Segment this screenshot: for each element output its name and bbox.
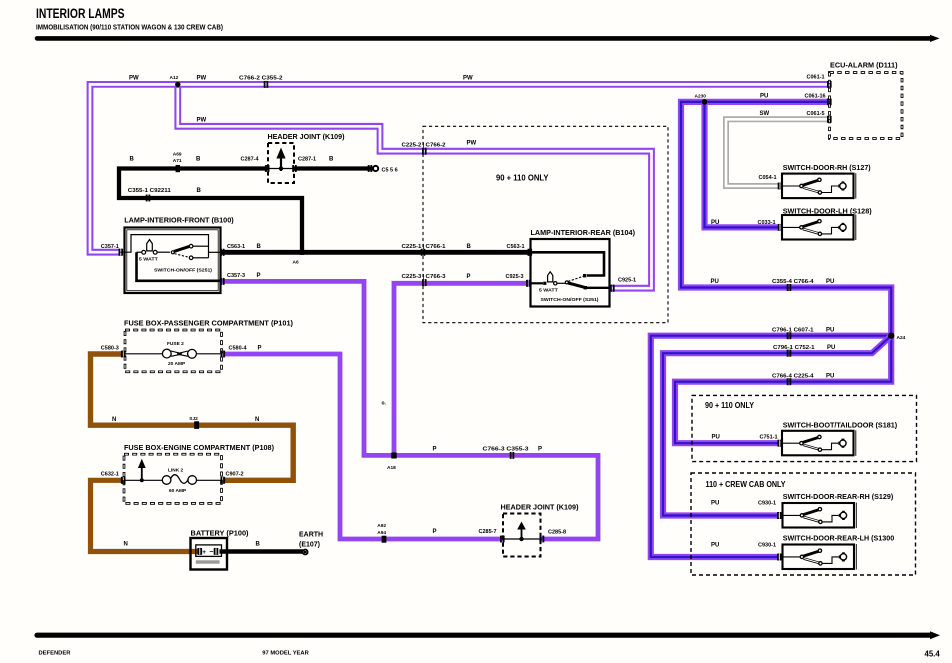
svg-text:PU: PU (712, 434, 720, 440)
svg-text:SWITCH-DOOR-LH (S128): SWITCH-DOOR-LH (S128) (783, 206, 872, 215)
connector C225-2 C766-2 (423, 148, 426, 155)
header joint K109 internal thin wire (top) (266, 166, 296, 172)
ECU-ALARM D111 dashed box (830, 73, 903, 139)
svg-text:FUSE 2: FUSE 2 (167, 341, 184, 347)
svg-text:(E107): (E107) (299, 541, 320, 548)
connector C796-1 C607-1 (788, 332, 791, 339)
svg-text:45.4: 45.4 (925, 649, 941, 658)
svg-text:A69: A69 (173, 152, 182, 158)
svg-text:A18: A18 (387, 465, 396, 471)
switch-door-RH S127 (782, 173, 856, 199)
svg-text:20 AMP: 20 AMP (168, 361, 186, 367)
connector C357-1 (119, 249, 122, 256)
svg-text:P: P (258, 345, 262, 351)
svg-text:C751-1: C751-1 (760, 434, 778, 440)
node A230 (702, 99, 708, 105)
connector C357-3 (221, 278, 224, 285)
connector C287-4 (266, 165, 269, 172)
wire P loop: fuse C580-4 down via K109 up to lamp-front C357-3 (222, 281, 599, 539)
svg-text:5 WATT: 5 WATT (139, 257, 158, 263)
svg-text:FUSE BOX-ENGINE COMPARTMENT (P: FUSE BOX-ENGINE COMPARTMENT (P108) (124, 443, 274, 452)
wire PU: A24 left along C796-1 C607-1 down to switch-door-rear-LH C930-1 (651, 336, 891, 557)
connector C930-1 RH (778, 512, 781, 519)
svg-text:P: P (433, 447, 437, 453)
wire B: front lamp C563-1 to rear lamp C563-1 (222, 250, 531, 255)
battery terminal block (196, 545, 222, 557)
svg-text:SWITCH-ON/OFF (S251): SWITCH-ON/OFF (S251) (541, 297, 599, 303)
connector C563-1 rear (528, 249, 531, 256)
svg-text:C054-1: C054-1 (759, 175, 777, 181)
svg-text:A71: A71 (173, 158, 182, 164)
svg-text:o.: o. (382, 401, 387, 407)
earth E107 stud (303, 549, 308, 554)
wire PU branch: A230 down to switch-door-LH C033-1 (705, 102, 780, 227)
connector C796-1 C752-1 (788, 350, 791, 357)
svg-text:C580-4: C580-4 (229, 345, 248, 351)
connector C061-16 (828, 99, 831, 106)
connector C285-8 (541, 536, 544, 543)
svg-text:C580-3: C580-3 (101, 345, 119, 351)
switch-door-rear-RH S129 (783, 503, 857, 529)
svg-text:PU: PU (826, 373, 834, 379)
footer rule with arrow (37, 631, 940, 639)
svg-text:N: N (124, 542, 128, 548)
wire PU: A24 diagonal, left along C796-1 C752-1, down to switch-door-rear-RH C930-1 (663, 336, 891, 516)
node A12 (175, 82, 180, 87)
svg-text:A230: A230 (695, 94, 707, 100)
terminal C5 5 6 ring (373, 166, 378, 171)
svg-text:C061-1: C061-1 (807, 75, 825, 81)
svg-text:C287-4: C287-4 (241, 157, 260, 163)
110+CREW CAB ONLY dashed region (691, 473, 916, 575)
header rule with arrow (37, 35, 940, 42)
svg-text:A92: A92 (377, 523, 386, 529)
svg-text:C563-1: C563-1 (507, 244, 525, 250)
switch-boot/taildoor S181 (782, 430, 856, 456)
svg-text:C357-1: C357-1 (101, 244, 119, 250)
svg-text:P: P (467, 274, 471, 280)
B100 switch S251 (171, 244, 193, 259)
wire PW branch: A12 to C225-2 C766-2 to rear lamp C925-1 (178, 86, 652, 288)
svg-text:B: B (130, 157, 135, 163)
connector C766-4 C225-4 (788, 378, 791, 385)
connector C225-3 C766-3 (423, 279, 426, 286)
svg-text:PW: PW (197, 76, 207, 82)
connector C033-1 (779, 224, 782, 231)
fuse 2 symbol (124, 349, 222, 358)
svg-text:SJ2: SJ2 (189, 416, 198, 422)
B100 internal wiring (121, 235, 222, 281)
connector C355-4 C766-4 (788, 284, 791, 291)
svg-text:C930-1: C930-1 (758, 542, 776, 548)
svg-text:P: P (257, 273, 261, 279)
svg-text:B: B (257, 244, 262, 250)
svg-text:PW: PW (467, 141, 477, 147)
header joint K109 dashed box (bottom) (503, 514, 541, 557)
svg-text:IMMOBILISATION (90/110 STATION: IMMOBILISATION (90/110 STATION WAGON & 1… (36, 25, 223, 32)
svg-text:C061-16: C061-16 (805, 93, 826, 99)
svg-text:C285-8: C285-8 (548, 530, 566, 536)
svg-text:PW: PW (197, 117, 207, 123)
header joint K109 dashed box (top) (268, 143, 294, 183)
svg-text:LINK 2: LINK 2 (168, 467, 184, 473)
svg-text:SW: SW (760, 111, 770, 117)
svg-text:INTERIOR LAMPS: INTERIOR LAMPS (36, 6, 125, 21)
connector battery minus terminal (215, 548, 218, 555)
svg-text:B: B (256, 542, 261, 548)
battery gray bar (196, 560, 220, 563)
svg-text:HEADER JOINT (K109): HEADER JOINT (K109) (501, 504, 579, 511)
svg-text:SWITCH-DOOR-RH (S127): SWITCH-DOOR-RH (S127) (783, 163, 871, 172)
svg-text:PU: PU (760, 93, 768, 99)
svg-text:C563-1: C563-1 (227, 244, 245, 250)
connector C285-7 (501, 536, 504, 543)
connector C766-3 C355-3 (511, 452, 514, 459)
svg-text:PU: PU (711, 279, 719, 285)
svg-text:−: − (209, 549, 213, 556)
svg-text:C925-1: C925-1 (618, 278, 636, 284)
connector C766-2 C355-2 (265, 81, 268, 88)
svg-text:C930-1: C930-1 (758, 500, 776, 506)
connector C355-1 C92211 (147, 195, 150, 202)
svg-text:PU: PU (711, 500, 719, 506)
connector C925-1 (611, 285, 614, 292)
wire P branch: rear lamp C925-3 left and down to A18 (394, 283, 529, 455)
svg-text:C766-3 C355-3: C766-3 C355-3 (483, 447, 529, 453)
node A24 (888, 333, 894, 339)
svg-text:PU: PU (826, 327, 834, 333)
B104 bulb 5 WATT (543, 272, 557, 285)
header joint K109 arrow (top) (276, 148, 285, 172)
wire B: battery to earth E107 (220, 549, 304, 554)
svg-text:C225-2 | C766-2: C225-2 | C766-2 (402, 142, 446, 148)
svg-text:B: B (197, 188, 202, 194)
connector C287-1 (293, 165, 296, 172)
svg-text:C766-2 C355-2: C766-2 C355-2 (239, 76, 283, 82)
fuse box-passenger compartment P101 dashed box (125, 330, 222, 372)
wire PW main: ECU C061-1 to A12 to lamp-front C357-1 (90, 84, 830, 252)
svg-text:110 + CREW CAB ONLY: 110 + CREW CAB ONLY (706, 480, 787, 489)
svg-text:C925-3: C925-3 (506, 274, 524, 280)
90+110 ONLY dashed region (top) (423, 126, 668, 322)
B100 bulb 5 WATT (142, 240, 157, 255)
B104 switch S251 (565, 274, 587, 289)
svg-text:ECU-ALARM (D111): ECU-ALARM (D111) (830, 60, 898, 69)
90+110 ONLY dashed region (bottom, boot switch) (692, 395, 917, 461)
svg-text:LAMP-INTERIOR-FRONT (B100): LAMP-INTERIOR-FRONT (B100) (124, 216, 234, 225)
svg-text:B: B (196, 157, 201, 163)
lamp-interior-rear B104 box (531, 239, 610, 307)
svg-text:C225-1 | C766-1: C225-1 | C766-1 (402, 244, 446, 250)
svg-text:PU: PU (826, 279, 834, 285)
svg-text:SWITCH-DOOR-REAR-LH (S1300: SWITCH-DOOR-REAR-LH (S1300 (783, 533, 895, 542)
svg-text:N: N (255, 417, 259, 423)
svg-text:90 + 110 ONLY: 90 + 110 ONLY (496, 172, 549, 182)
wire N: C632-1 down and right to battery (91, 480, 200, 551)
P108 internal arrow (138, 459, 146, 483)
switch-door-LH S128 (782, 215, 856, 241)
node SJ2 (194, 421, 199, 429)
svg-text:LAMP-INTERIOR-REAR (B104): LAMP-INTERIOR-REAR (B104) (531, 228, 636, 237)
svg-text:C796-1 C607-1: C796-1 C607-1 (772, 327, 814, 333)
svg-text:P: P (538, 447, 542, 453)
connector C925-3 (527, 280, 530, 287)
connector C061-5 (828, 116, 831, 123)
svg-text:PW: PW (129, 76, 139, 82)
svg-text:C355-4 C766-4: C355-4 C766-4 (772, 279, 815, 285)
svg-text:A24: A24 (897, 335, 906, 341)
svg-text:5 WATT: 5 WATT (539, 287, 558, 293)
connector C930-1 LH (778, 554, 781, 561)
svg-text:SWITCH-BOOT/TAILDOOR (S181): SWITCH-BOOT/TAILDOOR (S181) (783, 420, 898, 429)
svg-text:C907-2: C907-2 (226, 472, 244, 478)
svg-text:A12: A12 (170, 75, 179, 81)
svg-text:C357-3: C357-3 (227, 273, 245, 279)
connector C907-2 (221, 477, 224, 484)
wire PU main: ECU C061-16 left, down, across, down to A24, down, left, down to C751-1 (675, 102, 891, 443)
switch-door-rear-LH S1300 (783, 544, 857, 570)
svg-text:PU: PU (711, 220, 719, 226)
connector C580-4 (221, 351, 224, 358)
svg-text:C632-1: C632-1 (101, 472, 119, 478)
svg-text:C766-4 C225-4: C766-4 C225-4 (772, 373, 815, 379)
svg-text:FUSE BOX-PASSENGER COMPARTMENT: FUSE BOX-PASSENGER COMPARTMENT (P101) (124, 318, 293, 327)
svg-text:HEADER JOINT (K109): HEADER JOINT (K109) (268, 134, 345, 141)
fuse box-engine compartment P108 dashed box (124, 454, 222, 503)
svg-text:B: B (329, 157, 334, 163)
svg-text:C796-1 C752-1: C796-1 C752-1 (773, 345, 815, 351)
svg-text:P: P (433, 529, 437, 535)
svg-text:A6: A6 (293, 260, 299, 266)
connector C632-1 (122, 477, 125, 484)
wire N: fuse C580-3 down, right, down to C907-2 (91, 354, 294, 480)
node A6 (300, 250, 305, 255)
svg-text:DEFENDER: DEFENDER (39, 651, 72, 657)
svg-text:PW: PW (463, 76, 473, 82)
connector C563-1 front (221, 249, 224, 256)
node A69 A71 (176, 165, 180, 172)
svg-text:C061-5: C061-5 (807, 111, 825, 117)
svg-text:C033-1: C033-1 (758, 220, 776, 226)
B104 internal wiring (529, 252, 611, 287)
svg-text:97 MODEL YEAR: 97 MODEL YEAR (262, 651, 309, 657)
connector C580-3 (122, 351, 125, 358)
svg-text:C355-1 C92211: C355-1 C92211 (128, 188, 171, 194)
svg-text:C287-1: C287-1 (298, 157, 316, 163)
node A18 (391, 453, 396, 459)
svg-text:A94: A94 (377, 530, 386, 536)
svg-text:B: B (467, 244, 472, 250)
connector battery plus terminal (198, 548, 201, 555)
connector C061-1 (828, 81, 831, 88)
svg-text:C5 5 6: C5 5 6 (382, 168, 398, 174)
svg-text:90 + 110 ONLY: 90 + 110 ONLY (705, 401, 755, 410)
svg-text:C285-7: C285-7 (479, 529, 497, 535)
battery P100 box (191, 538, 228, 570)
link 2 symbol (124, 475, 222, 485)
node A92 A94 (382, 536, 387, 543)
header joint K109 internal wire (bottom) (502, 536, 542, 543)
connector C225-1 C766-1 (422, 249, 425, 256)
lamp-interior-front B100 outer box (125, 228, 221, 294)
svg-text:C225-3 | C766-3: C225-3 | C766-3 (402, 274, 446, 280)
svg-text:N: N (112, 417, 116, 423)
header joint K109 arrow (bottom) (517, 522, 526, 542)
wire B main: C5 5 6 via K109, down, right, down to A6 line (119, 169, 373, 253)
svg-text:SWITCH-ON/OFF (S251): SWITCH-ON/OFF (S251) (154, 267, 212, 273)
svg-text:EARTH: EARTH (299, 531, 323, 538)
svg-text:BATTERY (P100): BATTERY (P100) (191, 529, 249, 538)
svg-text:60 AMP: 60 AMP (169, 488, 187, 494)
svg-text:PU: PU (827, 345, 835, 351)
connector C751-1 (778, 440, 781, 447)
svg-text:SWITCH-DOOR-REAR-RH (S129): SWITCH-DOOR-REAR-RH (S129) (783, 492, 894, 501)
connector tick before C5 5 6 (369, 165, 372, 172)
svg-text:+: + (202, 549, 206, 556)
wire SW: ECU C061-5 to switch-door-RH C054-1 (726, 119, 830, 186)
connector C054-1 (779, 183, 782, 190)
svg-text:PU: PU (711, 542, 719, 548)
